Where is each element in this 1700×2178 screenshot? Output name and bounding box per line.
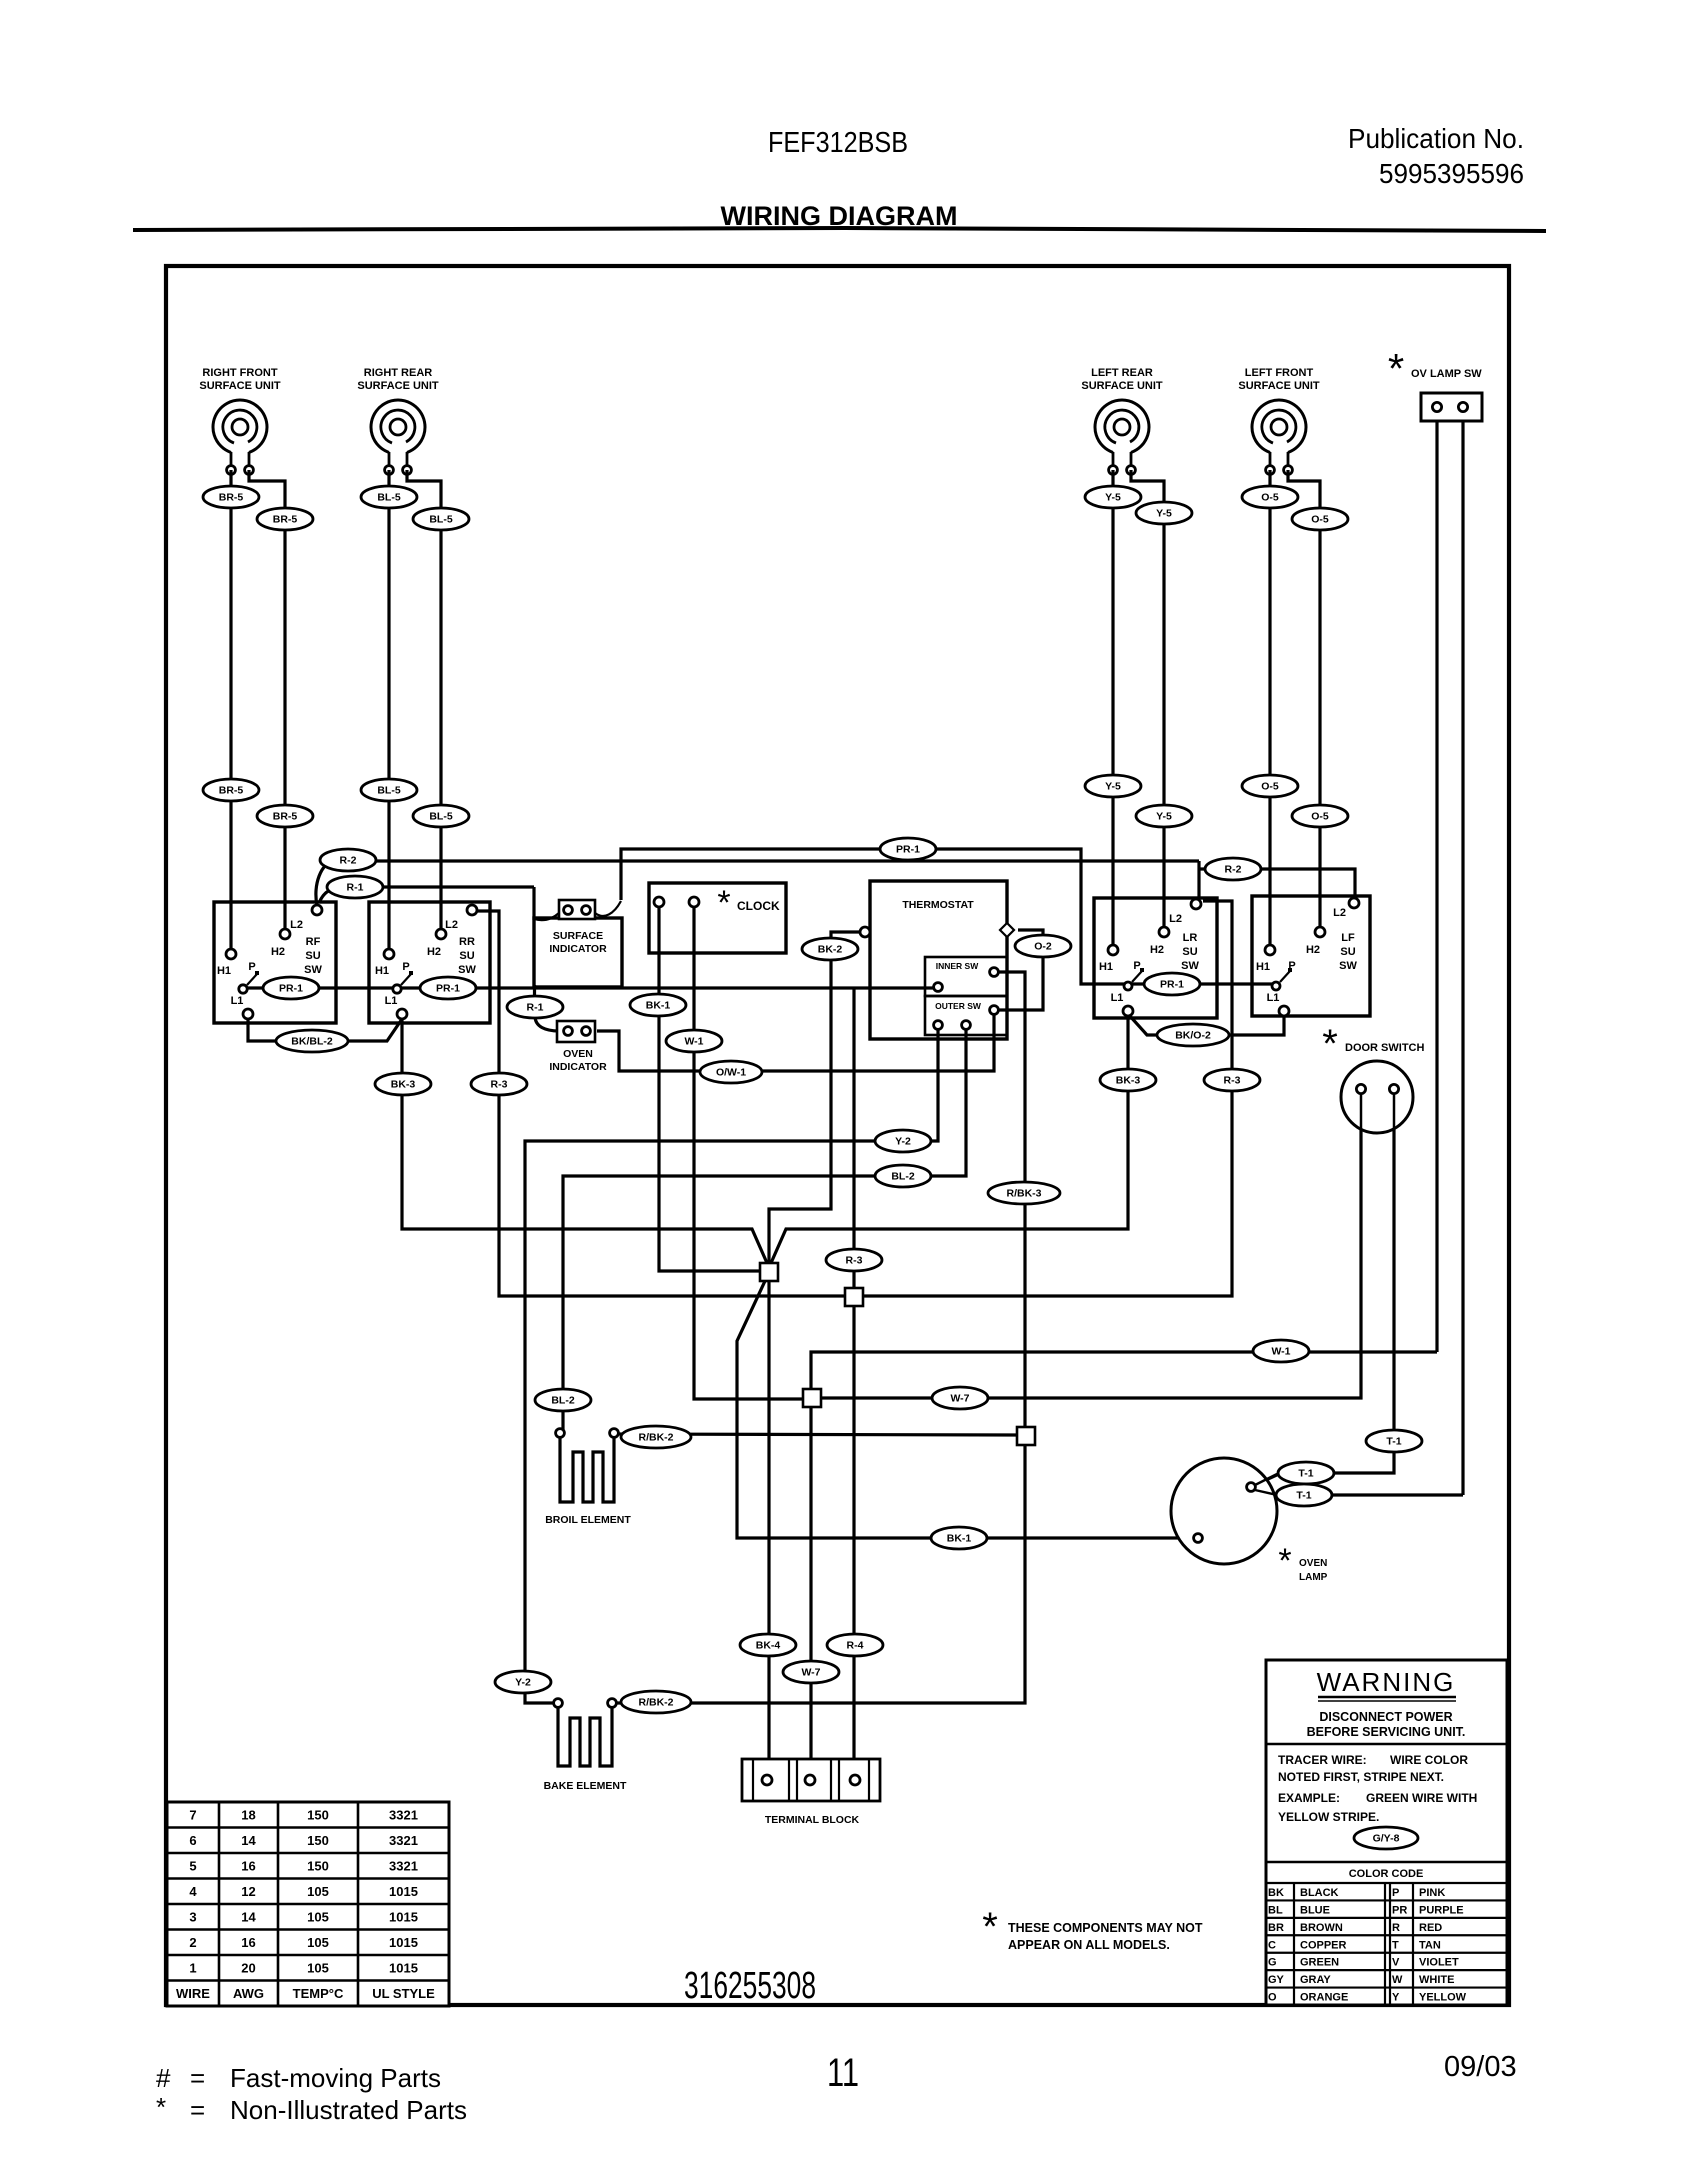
wire label O-5 [1292, 508, 1348, 530]
svg-text:W: W [1392, 1974, 1403, 1986]
wire PR-1: P RF across to inner switch, low run y=988 [247, 986, 935, 989]
svg-text:GRAY: GRAY [1300, 1974, 1331, 1986]
svg-text:SW: SW [1339, 960, 1357, 972]
svg-text:5: 5 [189, 1859, 196, 1874]
svg-text:LR: LR [1183, 932, 1198, 944]
svg-text:TEMP°C: TEMP°C [293, 1986, 344, 2001]
wire label BL-5 [413, 805, 469, 827]
wire label BK-3 [1100, 1069, 1156, 1091]
svg-text:105: 105 [307, 1961, 329, 1976]
svg-text:BL-2: BL-2 [551, 1395, 574, 1407]
wire: LF unit left lead down to H1 [1268, 470, 1271, 945]
junction square 4 (R/BK) [1017, 1427, 1035, 1445]
svg-text:11: 11 [827, 2051, 859, 2095]
svg-text:BK/O-2: BK/O-2 [1175, 1030, 1211, 1042]
wire BK-1: clock left terminal down to junction sq1 [659, 907, 762, 1271]
svg-text:2: 2 [189, 1935, 196, 1950]
svg-text:16: 16 [241, 1859, 255, 1874]
svg-text:20: 20 [241, 1961, 255, 1976]
svg-text:BL-5: BL-5 [377, 492, 400, 504]
svg-text:UL STYLE: UL STYLE [372, 1986, 435, 2001]
svg-text:TAN: TAN [1419, 1939, 1441, 1951]
wire R-3: L2 RR down long left run to junction sq2 and up to L2 LR [477, 901, 1232, 1296]
svg-text:L2: L2 [290, 919, 303, 931]
wire label R-1 [507, 996, 563, 1018]
svg-text:BROWN: BROWN [1300, 1922, 1343, 1934]
svg-text:RF: RF [306, 936, 321, 948]
svg-text:L1: L1 [385, 995, 398, 1007]
wire BK-4: junction sq1 down to terminal block [767, 1280, 770, 1777]
wire gauge table [167, 1802, 449, 2006]
svg-text:O-2: O-2 [1034, 941, 1052, 953]
svg-text:Fast-moving Parts: Fast-moving Parts [230, 2063, 441, 2093]
wire label T-1 [1278, 1462, 1334, 1484]
svg-text:L1: L1 [231, 995, 244, 1007]
svg-text:150: 150 [307, 1859, 329, 1874]
thermostat right diamond terminal [1000, 923, 1014, 937]
svg-text:14: 14 [241, 1833, 256, 1848]
svg-text:Y: Y [1392, 1992, 1400, 2004]
svg-text:*: * [1388, 345, 1404, 392]
svg-text:PURPLE: PURPLE [1419, 1904, 1464, 1916]
svg-text:Publication No.: Publication No. [1348, 123, 1524, 154]
junction square 1 (BK) [760, 1263, 778, 1281]
svg-text:OV LAMP SW: OV LAMP SW [1411, 368, 1482, 380]
svg-text:*: * [1278, 1542, 1291, 1580]
svg-text:L2: L2 [1333, 907, 1346, 919]
svg-text:=: = [190, 2095, 205, 2125]
svg-text:BLUE: BLUE [1300, 1904, 1330, 1916]
svg-text:1015: 1015 [389, 1961, 418, 1976]
svg-text:L1: L1 [1267, 992, 1280, 1004]
svg-text:WHITE: WHITE [1419, 1974, 1454, 1986]
svg-text:GREEN: GREEN [1300, 1957, 1339, 1969]
svg-text:GY: GY [1268, 1974, 1285, 1986]
broil element [560, 1438, 614, 1502]
wire label R/BK-2 [621, 1691, 691, 1713]
wire: LF unit right lead elbow down to H2 [1288, 470, 1320, 927]
wire Y-2: outer sw left down, across, down to bake element [525, 1029, 938, 1703]
wire label R-1 [327, 876, 383, 898]
thermostat [870, 881, 1007, 1039]
svg-text:P: P [1392, 1887, 1399, 1899]
svg-text:R-3: R-3 [846, 1255, 863, 1267]
wire label R/BK-2 [621, 1426, 691, 1448]
svg-text:3321: 3321 [389, 1833, 418, 1848]
svg-text:P: P [402, 961, 409, 973]
wire label BK-1 [630, 994, 686, 1016]
switch box LR SU SW [1094, 898, 1217, 1018]
wire label R-2 [1205, 858, 1261, 880]
svg-text:1015: 1015 [389, 1910, 418, 1925]
svg-text:Y-5: Y-5 [1105, 781, 1121, 793]
wire label T-1 [1276, 1484, 1332, 1506]
svg-text:150: 150 [307, 1833, 329, 1848]
svg-text:G/Y-8: G/Y-8 [1373, 1833, 1400, 1845]
wire label BR-5 [257, 805, 313, 827]
wire label R-3 [826, 1249, 882, 1271]
svg-text:Y-2: Y-2 [895, 1136, 911, 1148]
svg-text:W-1: W-1 [684, 1036, 703, 1048]
wire label R-3 [471, 1073, 527, 1095]
svg-text:BK-3: BK-3 [391, 1079, 416, 1091]
wire label Y-5 [1136, 805, 1192, 827]
svg-text:PR-1: PR-1 [436, 983, 460, 995]
svg-text:316255308: 316255308 [684, 1965, 816, 2007]
wire: RF unit right lead elbow down to H2 [249, 470, 285, 929]
svg-text:Y-5: Y-5 [1105, 492, 1121, 504]
wire label R/BK-3 [988, 1182, 1060, 1204]
wire W-1: clock right terminal down to junction sq3 [694, 907, 805, 1399]
svg-text:SW: SW [1181, 960, 1199, 972]
wire label PR-1 [263, 977, 319, 999]
outer switch [925, 996, 1007, 1035]
svg-text:L1: L1 [1111, 992, 1124, 1004]
wire label O-5 [1242, 486, 1298, 508]
wire BL-2: outer sw mid down, across, down to broil element [563, 1029, 966, 1430]
svg-text:09/03: 09/03 [1444, 2051, 1517, 2083]
svg-text:WIRE: WIRE [176, 1986, 210, 2001]
svg-text:R/BK-2: R/BK-2 [638, 1432, 673, 1444]
wire R-2: L2 RF up across page to L2 LF with tap to L2 LR [316, 861, 334, 906]
svg-text:SURFACE: SURFACE [553, 930, 603, 942]
svg-text:BK-1: BK-1 [646, 1000, 671, 1012]
oven indicator [557, 1021, 595, 1042]
wire label W-1 [1253, 1340, 1309, 1362]
wire label Y-5 [1085, 486, 1141, 508]
wire R/BK-2: broil element right to junction sq4 [618, 1434, 1018, 1435]
svg-text:SW: SW [304, 964, 322, 976]
svg-text:Y-5: Y-5 [1156, 811, 1172, 823]
svg-text:5995395596: 5995395596 [1379, 158, 1524, 189]
svg-text:BK-1: BK-1 [947, 1533, 972, 1545]
svg-text:H1: H1 [375, 965, 389, 977]
svg-text:BR-5: BR-5 [219, 785, 244, 797]
svg-text:4: 4 [189, 1884, 197, 1899]
svg-text:RED: RED [1419, 1922, 1442, 1934]
wire O/W-1: outer sw right down and across to oven indicator right [597, 1014, 994, 1071]
svg-text:*: * [982, 1905, 998, 1949]
svg-text:BK: BK [1268, 1887, 1284, 1899]
wire label W-1 [666, 1030, 722, 1052]
svg-text:O/W-1: O/W-1 [716, 1067, 746, 1079]
svg-text:INDICATOR: INDICATOR [549, 943, 607, 955]
svg-text:LEFT FRONT: LEFT FRONT [1245, 367, 1314, 379]
svg-text:L2: L2 [445, 919, 458, 931]
wire label W-7 [783, 1661, 839, 1683]
svg-text:BAKE ELEMENT: BAKE ELEMENT [544, 1780, 627, 1792]
wire label Y-5 [1085, 775, 1141, 797]
svg-text:T-1: T-1 [1386, 1436, 1401, 1448]
svg-text:R-2: R-2 [1225, 864, 1242, 876]
svg-text:BK-2: BK-2 [818, 944, 843, 956]
svg-text:C: C [1268, 1939, 1276, 1951]
wire label BK-3 [375, 1073, 431, 1095]
svg-text:SU: SU [305, 950, 320, 962]
svg-text:1015: 1015 [389, 1935, 418, 1950]
svg-text:THERMOSTAT: THERMOSTAT [902, 899, 974, 911]
svg-text:VIOLET: VIOLET [1419, 1957, 1459, 1969]
oven lamp [1171, 1458, 1277, 1564]
bake element [558, 1708, 612, 1766]
wire T-1: door switch right terminal down to oven lamp [1332, 1093, 1394, 1473]
svg-text:H2: H2 [1306, 944, 1320, 956]
svg-text:BK/BL-2: BK/BL-2 [291, 1036, 333, 1048]
svg-text:BL-5: BL-5 [377, 785, 400, 797]
wire label Y-5 [1136, 502, 1192, 524]
wire W-7: junction sq3 right to door switch left terminal [819, 1094, 1361, 1398]
wire label G/Y-8 [1354, 1827, 1418, 1849]
svg-text:O: O [1268, 1992, 1277, 2004]
svg-text:1: 1 [189, 1961, 196, 1976]
wire BK/O-2: L1 LR to L1 LF [1129, 1015, 1284, 1035]
wire: OV LAMP SW right terminal down (T-1) [1461, 421, 1464, 1495]
svg-text:OVEN: OVEN [563, 1048, 593, 1060]
svg-text:3321: 3321 [389, 1859, 418, 1874]
svg-text:W-7: W-7 [950, 1393, 969, 1405]
svg-text:BEFORE SERVICING UNIT.: BEFORE SERVICING UNIT. [1307, 1725, 1466, 1739]
wire label T-1 [1366, 1430, 1422, 1452]
surface indicator [534, 918, 622, 987]
wire label PR-1 [1144, 973, 1200, 995]
wire label BK/BL-2 [276, 1030, 348, 1052]
diagram border frame [166, 266, 1509, 2005]
P pivot LR [1132, 971, 1142, 982]
wire label BL-5 [361, 486, 417, 508]
switch box RF SU SW [214, 902, 336, 1023]
svg-text:BL-5: BL-5 [429, 811, 452, 823]
svg-text:COLOR CODE: COLOR CODE [1349, 1868, 1424, 1880]
svg-text:ORANGE: ORANGE [1300, 1992, 1348, 2004]
wire: LR unit left lead down to H1 [1111, 470, 1114, 945]
wire R-1: surface indicator left down to oven indicator [533, 985, 536, 999]
wire R-1: L2 RF to surface indicator left [319, 887, 340, 903]
svg-text:O-5: O-5 [1261, 781, 1279, 793]
svg-text:14: 14 [241, 1910, 256, 1925]
wire BK-3 left: L1 RR down, right, diagonal into junction sq1 [402, 1020, 767, 1263]
svg-text:BK-4: BK-4 [756, 1640, 781, 1652]
svg-text:G: G [1268, 1957, 1277, 1969]
svg-text:LAMP: LAMP [1299, 1572, 1328, 1583]
svg-text:SURFACE UNIT: SURFACE UNIT [357, 380, 439, 392]
svg-text:O-5: O-5 [1311, 811, 1329, 823]
svg-text:105: 105 [307, 1935, 329, 1950]
wire T-1: oven lamp to OV LAMP SW right [1255, 1491, 1279, 1495]
svg-text:SW: SW [458, 964, 476, 976]
svg-text:PR-1: PR-1 [1160, 979, 1184, 991]
junction square 3 (W) [803, 1389, 821, 1407]
svg-text:PINK: PINK [1419, 1887, 1445, 1899]
svg-text:16: 16 [241, 1935, 255, 1950]
svg-text:CLOCK: CLOCK [737, 899, 780, 913]
svg-text:PR-1: PR-1 [896, 844, 920, 856]
svg-text:SURFACE UNIT: SURFACE UNIT [199, 380, 281, 392]
color code table [1266, 1861, 1507, 1863]
wire label W-7 [932, 1387, 988, 1409]
wire BK/BL-2: L1 RF to L1 RR [248, 1019, 402, 1041]
wire label O-2 [1015, 935, 1071, 957]
svg-text:R-4: R-4 [847, 1640, 864, 1652]
wire: RR unit right lead elbow down to H2 [407, 470, 441, 929]
svg-text:RIGHT REAR: RIGHT REAR [364, 367, 433, 379]
svg-text:COPPER: COPPER [1300, 1939, 1347, 1951]
svg-text:H2: H2 [271, 946, 285, 958]
P pivot RF [247, 974, 257, 985]
svg-text:LF: LF [1341, 932, 1355, 944]
wire: RF unit left lead down to H1 [229, 470, 232, 949]
svg-text:R-1: R-1 [347, 882, 364, 894]
switch box LF SU SW [1252, 896, 1370, 1016]
svg-text:*: * [156, 2092, 166, 2122]
svg-text:T-1: T-1 [1298, 1468, 1313, 1480]
clock [649, 883, 786, 953]
wire label BK-2 [802, 938, 858, 960]
svg-text:RIGHT FRONT: RIGHT FRONT [202, 367, 277, 379]
wire label PR-1 [420, 977, 476, 999]
inner switch [925, 957, 1007, 996]
wire BK-2: thermostat left down jog into junction sq1 [769, 932, 862, 1266]
svg-text:18: 18 [241, 1808, 255, 1823]
junction square 2 (R) [845, 1288, 863, 1306]
wire label Y-2 [495, 1671, 551, 1693]
svg-text:OUTER SW: OUTER SW [935, 1001, 982, 1011]
wire: RR unit left lead down to H1 [387, 470, 390, 949]
svg-text:PR: PR [1392, 1904, 1407, 1916]
svg-text:BL-2: BL-2 [891, 1171, 914, 1183]
svg-text:T: T [1392, 1939, 1399, 1951]
svg-text:SU: SU [459, 950, 474, 962]
wire label BL-5 [361, 779, 417, 801]
svg-text:INNER SW: INNER SW [936, 961, 979, 971]
wire label R-2 [320, 849, 376, 871]
svg-text:BL: BL [1268, 1904, 1283, 1916]
svg-text:W-7: W-7 [801, 1667, 820, 1679]
wire label BL-2 [875, 1165, 931, 1187]
svg-text:1015: 1015 [389, 1884, 418, 1899]
svg-text:RR: RR [459, 936, 475, 948]
svg-text:BR: BR [1268, 1922, 1284, 1934]
svg-text:EXAMPLE:: EXAMPLE: [1278, 1791, 1340, 1805]
svg-text:BR-5: BR-5 [273, 811, 298, 823]
wire W-1: junction sq3 up and across to OV LAMP SW left [811, 1352, 1437, 1391]
wire PR-1: surface indicator right up and across to P LR / P LF [621, 849, 1124, 984]
svg-text:R-3: R-3 [491, 1079, 508, 1091]
svg-text:Non-Illustrated Parts: Non-Illustrated Parts [230, 2095, 467, 2125]
svg-text:BR-5: BR-5 [219, 492, 244, 504]
P pivot LF [1280, 971, 1290, 982]
wire label BK/O-2 [1157, 1024, 1229, 1046]
svg-text:R/BK-2: R/BK-2 [638, 1697, 673, 1709]
wire O-2: thermostat right diamond to outer sw right [997, 930, 1043, 1010]
wire label O-5 [1292, 805, 1348, 827]
svg-text:12: 12 [241, 1884, 255, 1899]
svg-text:H1: H1 [1099, 961, 1113, 973]
svg-text:3321: 3321 [389, 1808, 418, 1823]
svg-text:150: 150 [307, 1808, 329, 1823]
svg-text:L2: L2 [1169, 913, 1182, 925]
svg-text:SURFACE UNIT: SURFACE UNIT [1081, 380, 1163, 392]
svg-text:AWG: AWG [233, 1986, 264, 2001]
wire W-7: junction sq3 down to terminal block [809, 1405, 812, 1777]
svg-text:FEF312BSB: FEF312BSB [768, 127, 908, 159]
svg-text:7: 7 [189, 1808, 196, 1823]
wire label O/W-1 [700, 1061, 762, 1083]
svg-text:P: P [1133, 960, 1140, 972]
wire label BK-4 [740, 1634, 796, 1656]
wire label BR-5 [257, 508, 313, 530]
wire R/BK-3: inner sw right terminal down long run to bake element [616, 972, 1025, 1703]
wire: LR unit right lead elbow down to H2 [1131, 470, 1164, 927]
svg-text:THESE COMPONENTS MAY NOT: THESE COMPONENTS MAY NOT [1008, 1921, 1203, 1935]
wire label BR-5 [203, 486, 259, 508]
wire BK-3 right: L1 LR down, left, diagonal into junction sq1 [771, 1016, 1128, 1263]
svg-text:=: = [190, 2063, 205, 2093]
svg-text:P: P [248, 961, 255, 973]
svg-text:H1: H1 [217, 965, 231, 977]
svg-text:YELLOW STRIPE.: YELLOW STRIPE. [1278, 1810, 1379, 1824]
svg-text:*: * [717, 884, 730, 922]
svg-text:#: # [156, 2063, 171, 2093]
wire label R-4 [827, 1634, 883, 1656]
wire label BL-2 [535, 1389, 591, 1411]
P pivot RR [401, 974, 411, 985]
svg-text:H2: H2 [427, 946, 441, 958]
terminal block [742, 1759, 880, 1801]
svg-text:105: 105 [307, 1884, 329, 1899]
svg-text:SU: SU [1340, 946, 1355, 958]
svg-text:O-5: O-5 [1261, 492, 1279, 504]
svg-text:WIRE COLOR: WIRE COLOR [1390, 1753, 1468, 1767]
wire label R-3 [1204, 1069, 1260, 1091]
svg-text:PR-1: PR-1 [279, 983, 303, 995]
svg-text:LEFT REAR: LEFT REAR [1091, 367, 1153, 379]
svg-text:TERMINAL BLOCK: TERMINAL BLOCK [765, 1814, 860, 1826]
wire label O-5 [1242, 775, 1298, 797]
svg-text:H1: H1 [1256, 961, 1270, 973]
svg-text:R-2: R-2 [340, 855, 357, 867]
svg-text:BK-3: BK-3 [1116, 1075, 1141, 1087]
svg-text:*: * [1322, 1022, 1338, 1066]
svg-text:BROIL ELEMENT: BROIL ELEMENT [545, 1514, 631, 1526]
svg-text:YELLOW: YELLOW [1419, 1992, 1467, 2004]
svg-text:SU: SU [1182, 946, 1197, 958]
svg-text:6: 6 [189, 1833, 196, 1848]
warning box [1266, 1660, 1507, 2005]
svg-text:SURFACE UNIT: SURFACE UNIT [1238, 380, 1320, 392]
svg-text:GREEN WIRE WITH: GREEN WIRE WITH [1366, 1791, 1477, 1805]
svg-text:NOTED FIRST, STRIPE NEXT.: NOTED FIRST, STRIPE NEXT. [1278, 1770, 1444, 1784]
svg-text:R-1: R-1 [527, 1002, 544, 1014]
svg-text:105: 105 [307, 1910, 329, 1925]
svg-text:Y-5: Y-5 [1156, 508, 1172, 520]
svg-text:APPEAR ON ALL MODELS.: APPEAR ON ALL MODELS. [1008, 1938, 1170, 1952]
svg-text:WARNING: WARNING [1317, 1667, 1456, 1697]
svg-text:DISCONNECT POWER: DISCONNECT POWER [1319, 1710, 1452, 1724]
svg-text:TRACER WIRE:: TRACER WIRE: [1278, 1753, 1367, 1767]
svg-text:H2: H2 [1150, 944, 1164, 956]
svg-text:DOOR SWITCH: DOOR SWITCH [1345, 1042, 1424, 1054]
wire label BL-5 [413, 508, 469, 530]
svg-text:W-1: W-1 [1271, 1346, 1290, 1358]
svg-text:T-1: T-1 [1296, 1490, 1311, 1502]
svg-text:R: R [1392, 1922, 1400, 1934]
wire label Y-2 [875, 1130, 931, 1152]
svg-text:R-3: R-3 [1224, 1075, 1241, 1087]
wire label BR-5 [203, 779, 259, 801]
svg-text:R/BK-3: R/BK-3 [1006, 1188, 1041, 1200]
svg-text:BR-5: BR-5 [273, 514, 298, 526]
svg-text:3: 3 [189, 1910, 196, 1925]
